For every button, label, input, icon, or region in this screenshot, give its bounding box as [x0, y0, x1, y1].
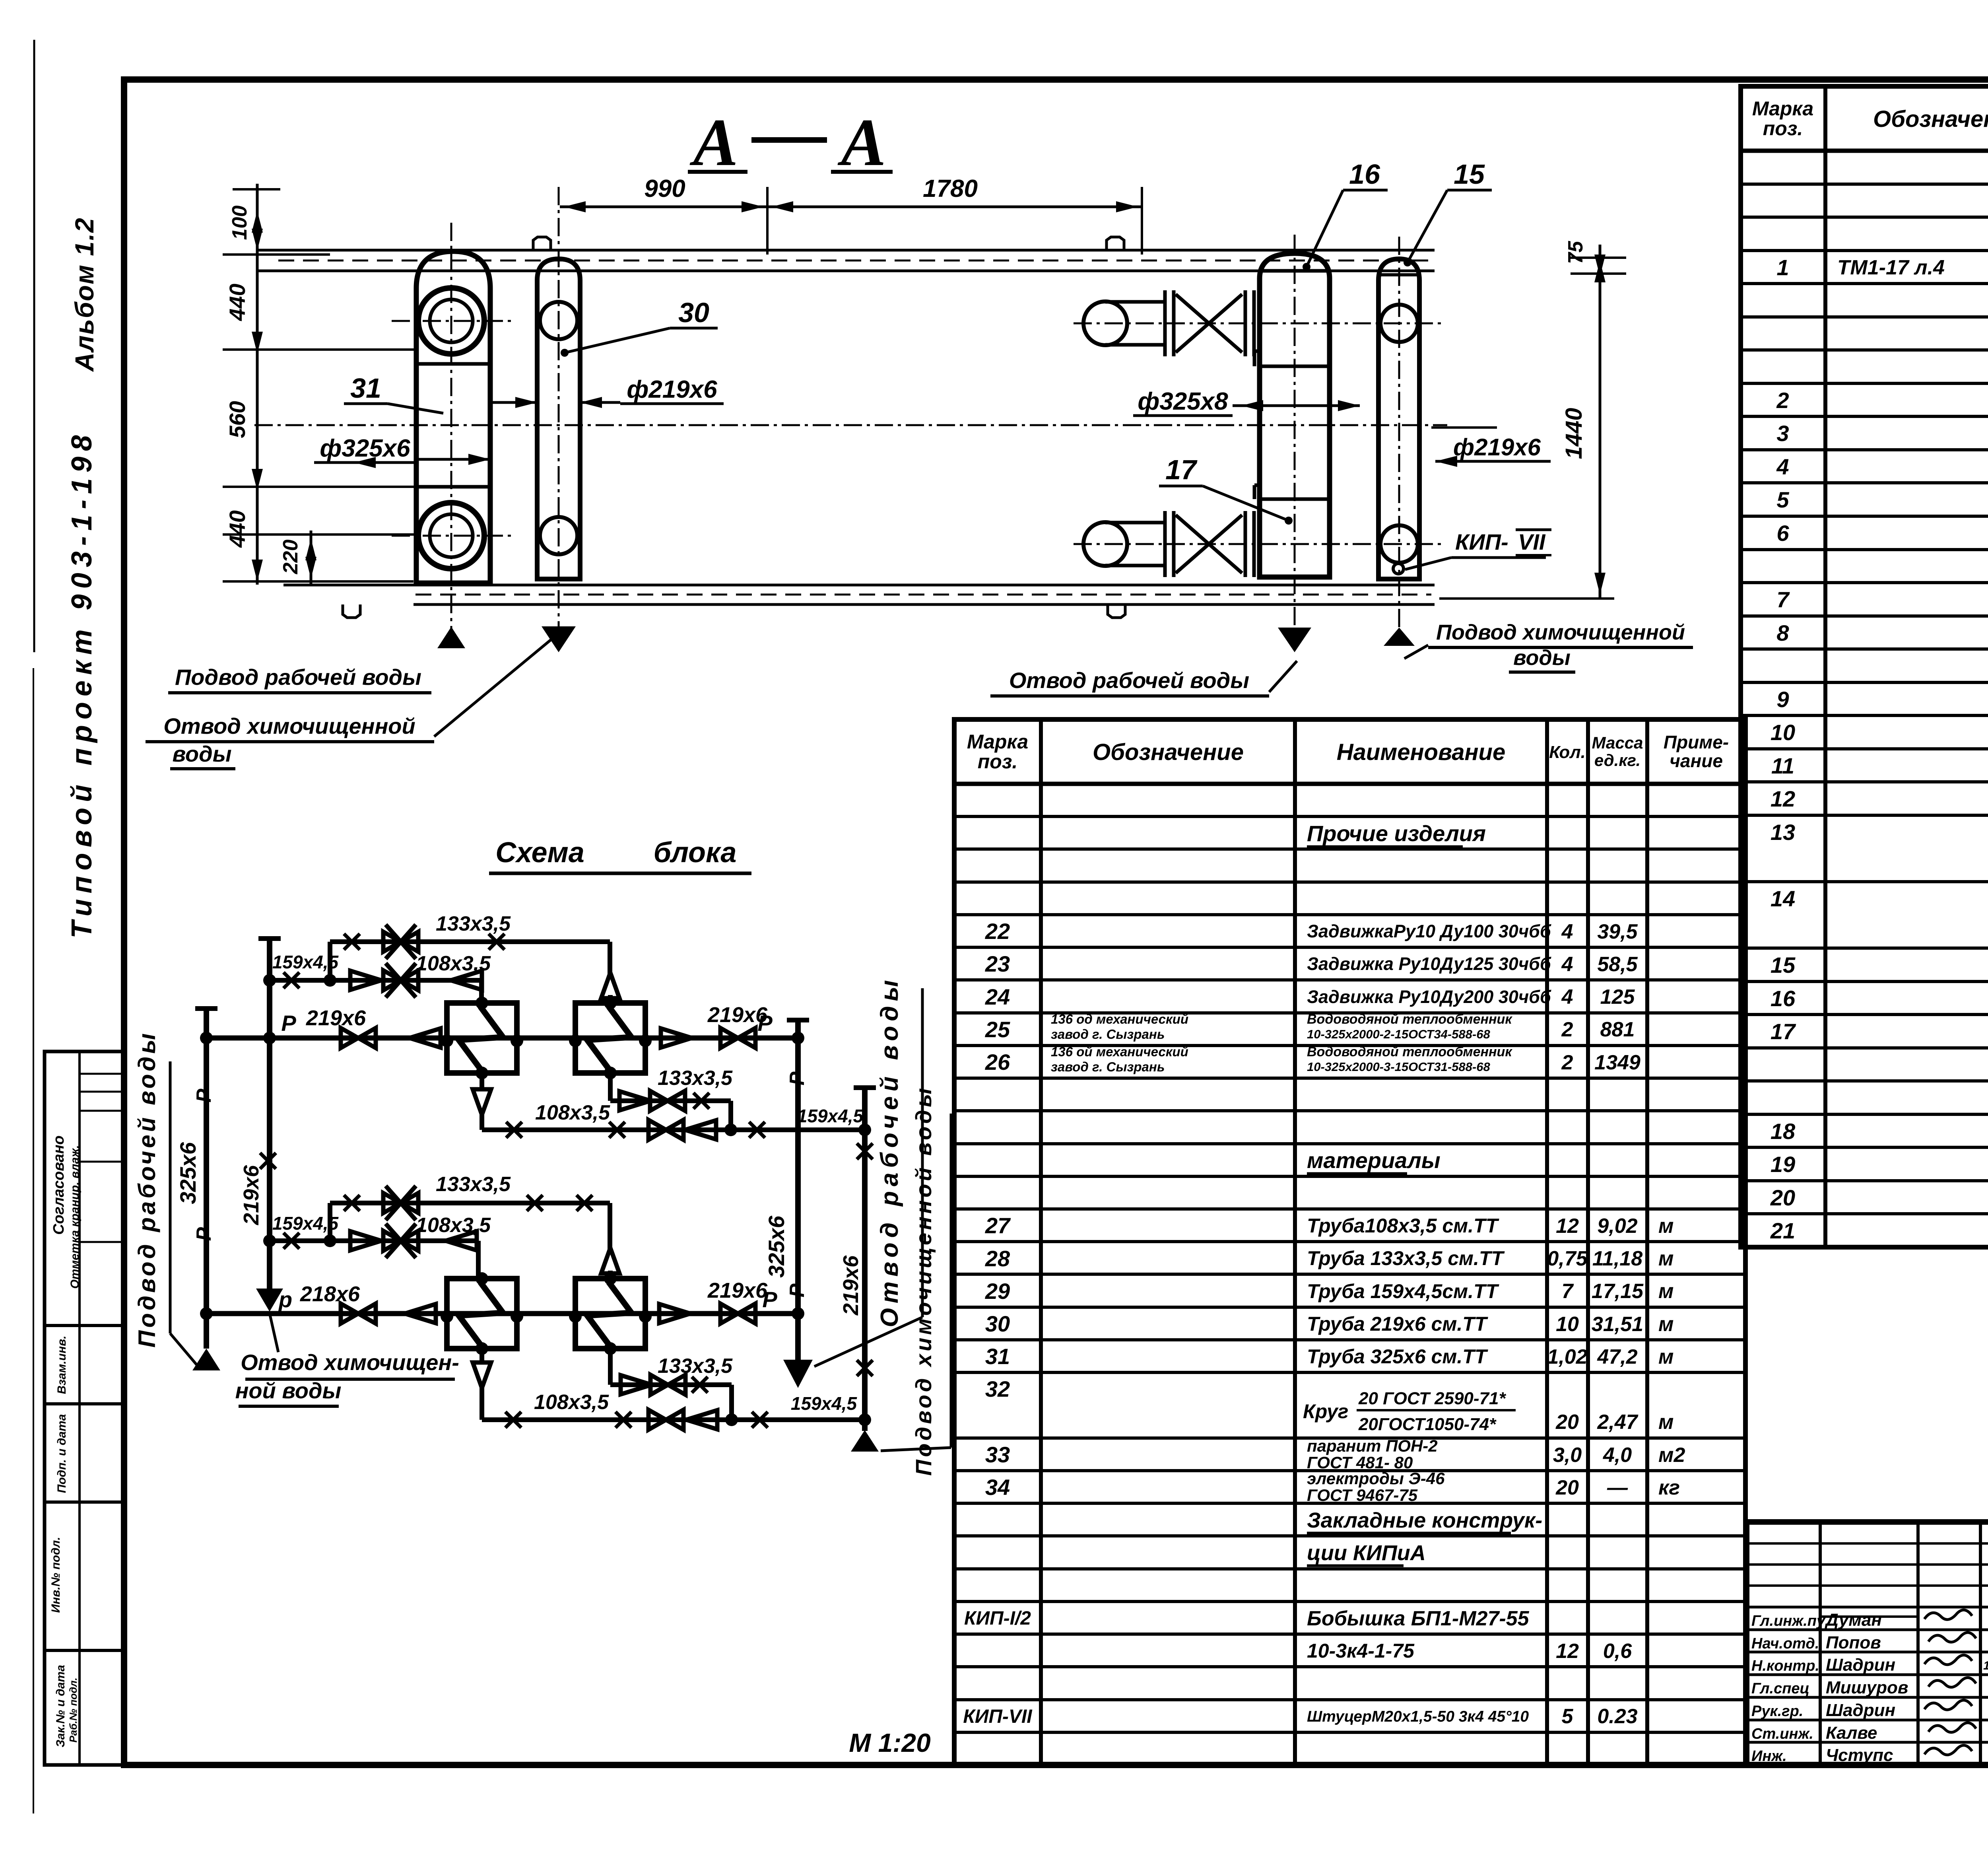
svg-text:108х3,5: 108х3,5: [416, 1214, 491, 1237]
svg-text:39,5: 39,5: [1597, 920, 1638, 943]
svg-text:133х3,5: 133х3,5: [436, 912, 511, 935]
svg-text:Труба 325х6 см.ТТ: Труба 325х6 см.ТТ: [1307, 1345, 1489, 1368]
svg-text:29: 29: [985, 1279, 1010, 1304]
svg-text:218х6: 218х6: [300, 1282, 360, 1306]
svg-text:1780: 1780: [923, 175, 978, 202]
label 325x6 supply: [175, 1142, 200, 1204]
label P upper main left: [281, 1011, 296, 1036]
svg-text:Р: Р: [192, 1227, 215, 1241]
svg-text:Отвод химочищен-: Отвод химочищен-: [241, 1350, 459, 1375]
svg-text:20 ГОСТ 2590-71*: 20 ГОСТ 2590-71*: [1358, 1389, 1506, 1408]
svg-text:Водоводяной теплообменник: Водоводяной теплообменник: [1307, 1012, 1512, 1027]
label P riser return low: [786, 1283, 809, 1297]
valve rowAu: [650, 1091, 685, 1111]
right table grid: [1741, 86, 1988, 1247]
svg-text:10: 10: [1771, 720, 1795, 745]
left margin stamp boxes: [45, 1051, 124, 1765]
svg-text:Мишуров: Мишуров: [1826, 1678, 1908, 1697]
note podvod rab vody rotated: [134, 1030, 199, 1367]
stamp text Vzam inv: [55, 1335, 68, 1394]
svg-text:325х6: 325х6: [764, 1215, 789, 1278]
svg-text:м: м: [1658, 1345, 1673, 1368]
svg-text:ф219х6: ф219х6: [627, 376, 717, 403]
svg-text:Масса: Масса: [1592, 733, 1643, 752]
xmark riser159 b: [857, 1360, 873, 1376]
xmark branch108l: [283, 1233, 299, 1249]
label 159x45 rowBl: [791, 1393, 858, 1414]
svg-text:4,0: 4,0: [1603, 1444, 1632, 1467]
svg-text:Труба 133х3,5 см.ТТ: Труба 133х3,5 см.ТТ: [1307, 1247, 1505, 1269]
channel bracket top 2: [1107, 237, 1124, 250]
label 31: [344, 373, 443, 413]
xmark rowBl b: [615, 1412, 631, 1428]
right table header: [1752, 97, 1988, 140]
svg-text:завод г. Сызрань: завод г. Сызрань: [1051, 1027, 1165, 1042]
note otvod rabochey vody: [990, 661, 1297, 696]
svg-text:31: 31: [985, 1344, 1010, 1369]
svg-text:3: 3: [1776, 421, 1789, 446]
svg-text:ЗадвижкаРу10 Ду100 30чбб: ЗадвижкаРу10 Ду100 30чбб: [1307, 921, 1551, 941]
wire T1 bottom drop: [480, 1073, 484, 1090]
svg-text:ГОСТ 9467-75: ГОСТ 9467-75: [1307, 1486, 1418, 1504]
arrow podvod himochishchennoy: [1384, 628, 1415, 646]
svg-text:ТМ1-17 л.4: ТМ1-17 л.4: [1837, 256, 1945, 279]
svg-text:А: А: [837, 105, 886, 180]
xmark rowBu b: [609, 1122, 625, 1138]
svg-text:Альбом 1.2: Альбом 1.2: [70, 217, 99, 372]
svg-text:Шадрин: Шадрин: [1826, 1701, 1895, 1720]
scan page edge artifact: [33, 40, 34, 1813]
channel bracket bottom 2: [1108, 604, 1125, 618]
svg-text:Р: Р: [281, 1011, 296, 1036]
label 219x6 riser: [239, 1165, 263, 1225]
svg-text:Гл.спец: Гл.спец: [1751, 1680, 1809, 1697]
svg-text:30: 30: [678, 297, 709, 328]
svg-text:10-3к4-1-75: 10-3к4-1-75: [1307, 1640, 1415, 1662]
label P riser return: [786, 1071, 809, 1085]
svg-text:материалы: материалы: [1307, 1148, 1441, 1173]
channel bracket top 1: [533, 237, 551, 250]
svg-text:воды: воды: [172, 741, 231, 766]
svg-text:10: 10: [1556, 1313, 1579, 1336]
svg-text:Отвод рабочей воды: Отвод рабочей воды: [1009, 668, 1249, 693]
label P riser325 upper: [192, 1088, 215, 1102]
svg-text:15.05.86: 15.05.86: [1983, 1659, 1988, 1672]
middle table content: [963, 821, 1685, 1728]
svg-text:220: 220: [279, 540, 302, 575]
svg-text:219х6: 219х6: [306, 1006, 366, 1030]
riser 159 right: [854, 1088, 876, 1431]
svg-text:20ГОСТ1050-74*: 20ГОСТ1050-74*: [1358, 1415, 1497, 1434]
svg-text:Р: Р: [757, 1011, 773, 1036]
svg-text:12: 12: [1771, 786, 1795, 811]
label 108x35 upper: [416, 952, 491, 975]
svg-text:ной воды: ной воды: [235, 1378, 342, 1403]
xmark rowAl: [692, 1377, 708, 1393]
svg-text:Отвод химочищенной: Отвод химочищенной: [163, 713, 415, 739]
svg-text:ШтуцерМ20х1,5-50 3к4 45°10: ШтуцерМ20х1,5-50 3к4 45°10: [1307, 1708, 1529, 1725]
note otvod himochishchen rotated: [235, 1313, 459, 1406]
svg-text:2,47: 2,47: [1597, 1411, 1638, 1434]
svg-text:Раб.№ подл.: Раб.№ подл.: [67, 1677, 79, 1742]
svg-text:2: 2: [1561, 1018, 1573, 1041]
riser 325 return: [787, 1020, 809, 1360]
dimension chain 100-440-560-440: [223, 184, 416, 585]
valve branch133l: [383, 1186, 418, 1220]
note podvod himochishchennoy vody: [1404, 620, 1693, 672]
svg-text:11,18: 11,18: [1592, 1247, 1642, 1270]
wire rowB lower: [482, 1388, 865, 1426]
svg-text:Бобышка БП1-М27-55: Бобышка БП1-М27-55: [1307, 1607, 1530, 1630]
svg-text:24: 24: [985, 984, 1010, 1009]
xmark riser219 b: [260, 1153, 276, 1169]
svg-text:0,75: 0,75: [1547, 1247, 1588, 1270]
label f325x6: [314, 435, 490, 468]
svg-text:18: 18: [1771, 1119, 1796, 1144]
svg-text:Взам.инв.: Взам.инв.: [55, 1335, 68, 1394]
svg-text:Нач.отд.: Нач.отд.: [1751, 1635, 1819, 1652]
svg-text:Труба 159х4,5см.ТТ: Труба 159х4,5см.ТТ: [1307, 1280, 1500, 1302]
svg-text:133х3,5: 133х3,5: [436, 1173, 511, 1196]
svg-text:Типовой проект 903-1-198: Типовой проект 903-1-198: [66, 430, 98, 939]
label 16: [1303, 159, 1388, 271]
svg-text:4: 4: [1776, 454, 1789, 479]
label 17: [1159, 454, 1293, 525]
svg-text:15: 15: [1454, 159, 1485, 190]
margin label Albom 1.2: [70, 217, 99, 372]
svg-text:Приме-: Приме-: [1664, 732, 1729, 752]
dimension 990-1780: [560, 175, 1142, 255]
valve branch108u: [383, 963, 418, 997]
label 219x6 riser159: [839, 1255, 863, 1316]
arrow inlet 325: [192, 1349, 220, 1370]
label 159x4 upper: [272, 952, 339, 972]
svg-text:133х3,5: 133х3,5: [658, 1355, 733, 1378]
svg-text:м: м: [1658, 1215, 1673, 1238]
svg-text:11: 11: [1771, 753, 1794, 778]
label 108x35 lower: [416, 1214, 491, 1237]
svg-text:м2: м2: [1658, 1444, 1685, 1467]
label 218x6 lower main: [300, 1282, 360, 1306]
svg-text:КИП-VII: КИП-VII: [963, 1706, 1033, 1727]
vent T4 top: [601, 1248, 619, 1279]
dimension 220: [279, 531, 316, 585]
wire branch 133 upper: [330, 942, 610, 980]
svg-text:136 од механический: 136 од механический: [1051, 1012, 1188, 1026]
label 30: [561, 297, 718, 357]
xmark branch133u a: [344, 934, 360, 950]
reducer upper main left: [410, 1028, 441, 1048]
pipe 325 pos31 top circle: [418, 288, 484, 354]
svg-text:16: 16: [1349, 159, 1380, 190]
vent T2 top: [601, 973, 619, 1003]
centerline pipe15: [1074, 237, 1443, 636]
reducer rowBl: [686, 1410, 717, 1429]
valve rowBu: [648, 1120, 683, 1140]
svg-text:7: 7: [1776, 587, 1790, 612]
svg-text:1,02: 1,02: [1547, 1345, 1587, 1368]
label 219x6 upper main right: [707, 1003, 768, 1027]
valve stub upper pos17: [1083, 290, 1254, 356]
valve lower main right: [720, 1304, 755, 1324]
svg-text:Кол.: Кол.: [1549, 742, 1586, 762]
svg-text:133х3,5: 133х3,5: [658, 1067, 733, 1090]
valve lower main left: [341, 1304, 376, 1324]
channel bracket bottom 1: [343, 604, 360, 618]
xmark rowBu a: [506, 1122, 522, 1138]
reducer lower main right: [659, 1304, 690, 1323]
svg-text:ции КИПиА: ции КИПиА: [1307, 1541, 1426, 1565]
schematic title Shema bloka: [489, 837, 751, 873]
stamp text bottom cell: [54, 1665, 79, 1747]
wire rowA lower: [610, 1349, 732, 1420]
svg-text:поз.: поз.: [978, 750, 1018, 773]
svg-text:Р: Р: [762, 1287, 777, 1312]
svg-text:881: 881: [1600, 1018, 1635, 1041]
label 133x35 rowAl: [658, 1355, 733, 1378]
svg-text:159х4,5: 159х4,5: [797, 1106, 864, 1126]
xmark rowAu: [693, 1093, 709, 1109]
svg-text:25: 25: [985, 1017, 1010, 1042]
reducer branch108u in: [350, 971, 381, 990]
label P lower main right: [762, 1287, 777, 1312]
reducer lower main left: [405, 1304, 436, 1323]
note otvod himochishchennoy vody: [146, 638, 553, 769]
wire rowA upper: [610, 1073, 731, 1130]
svg-text:1: 1: [1776, 255, 1789, 280]
svg-text:VII: VII: [1518, 529, 1546, 554]
reducer branch108u out: [451, 971, 482, 990]
svg-text:Подвод химочищенной воды: Подвод химочищенной воды: [911, 1085, 936, 1476]
pipe 325 pos16: [1254, 253, 1330, 577]
svg-text:Прочие изделия: Прочие изделия: [1307, 821, 1486, 846]
svg-text:Попов: Попов: [1826, 1633, 1881, 1652]
svg-text:Марка: Марка: [967, 731, 1028, 753]
valve rowBl: [648, 1410, 683, 1430]
reducer branch108l in: [350, 1231, 381, 1250]
svg-text:ед.кг.: ед.кг.: [1594, 751, 1640, 770]
svg-text:990: 990: [644, 175, 685, 202]
svg-text:27: 27: [985, 1213, 1011, 1238]
svg-text:Подвод рабочей воды: Подвод рабочей воды: [134, 1030, 160, 1347]
svg-text:Задвижка Ру10Ду125 30чбб: Задвижка Ру10Ду125 30чбб: [1307, 954, 1551, 974]
pipe 325 pos31 bottom circle: [418, 503, 484, 569]
svg-text:125: 125: [1600, 985, 1635, 1009]
svg-text:2: 2: [1561, 1051, 1573, 1074]
svg-text:Труба 219х6 см.ТТ: Труба 219х6 см.ТТ: [1307, 1313, 1489, 1335]
svg-text:440: 440: [225, 284, 250, 321]
svg-text:Зак.№ и дата: Зак.№ и дата: [54, 1665, 67, 1747]
label 159x45 rowBu right: [797, 1106, 864, 1126]
label 325x6 return: [764, 1215, 789, 1278]
svg-text:108х3,5: 108х3,5: [535, 1101, 610, 1124]
svg-text:А: А: [689, 105, 738, 180]
svg-text:5: 5: [1562, 1705, 1574, 1728]
label 108x35 rowBl: [534, 1391, 609, 1414]
svg-text:560: 560: [225, 401, 250, 438]
xmark riser159 a: [857, 1143, 873, 1159]
label P lower main left: [278, 1287, 292, 1312]
svg-text:30: 30: [985, 1311, 1010, 1336]
xmark branch108u: [283, 972, 299, 988]
note podvod rabochey vody: [168, 665, 431, 693]
svg-text:Задвижка Ру10Ду200 30чбб: Задвижка Ру10Ду200 30чбб: [1307, 987, 1551, 1007]
svg-text:1440: 1440: [1561, 408, 1587, 459]
svg-text:р: р: [278, 1287, 292, 1312]
svg-text:136 ой механический: 136 ой механический: [1051, 1044, 1188, 1059]
svg-text:219х6: 219х6: [707, 1279, 768, 1302]
svg-text:паранит ПОН-2: паранит ПОН-2: [1307, 1436, 1438, 1455]
svg-text:20: 20: [1555, 1476, 1579, 1499]
svg-text:10-325х2000-2-15ОСТ34-588-68: 10-325х2000-2-15ОСТ34-588-68: [1307, 1027, 1490, 1041]
support band top edge: [256, 250, 1435, 271]
svg-text:20: 20: [1770, 1185, 1795, 1210]
label f325x8: [1133, 388, 1360, 416]
svg-text:Подп. и дата: Подп. и дата: [55, 1414, 68, 1493]
stamp text Podp i data: [55, 1414, 68, 1493]
support band bottom edge: [283, 585, 1435, 604]
svg-text:Труба108х3,5 см.ТТ: Труба108х3,5 см.ТТ: [1307, 1215, 1500, 1237]
centerline pipe31: [392, 223, 515, 633]
svg-text:электроды Э-46: электроды Э-46: [1307, 1469, 1445, 1488]
svg-text:17: 17: [1165, 454, 1198, 485]
svg-text:Согласовано: Согласовано: [50, 1135, 67, 1235]
svg-text:Инж.: Инж.: [1751, 1748, 1787, 1765]
centerline pipe16: [1294, 235, 1296, 632]
svg-text:34: 34: [985, 1475, 1010, 1500]
svg-text:Думан: Думан: [1824, 1610, 1882, 1630]
stamp text Soglasovano: [50, 1135, 67, 1235]
svg-text:17,15: 17,15: [1592, 1280, 1644, 1303]
wire T3 bottom drop: [480, 1349, 484, 1363]
svg-text:159х4,5: 159х4,5: [791, 1393, 858, 1414]
valve upper main right: [720, 1028, 755, 1048]
svg-text:3,0: 3,0: [1553, 1444, 1582, 1467]
heat exchanger T1: [441, 997, 523, 1079]
svg-text:Круг: Круг: [1303, 1400, 1348, 1423]
wire upper main: [206, 1036, 798, 1041]
note otvod rab vody rotated: [814, 976, 922, 1366]
svg-text:Обозначение: Обозначение: [1873, 106, 1988, 132]
middle table header: [967, 731, 1729, 773]
svg-text:0,6: 0,6: [1603, 1640, 1632, 1663]
pipe 219 pos30 outline: [537, 259, 580, 579]
pipe 219 pos30 circles: [540, 302, 577, 554]
vent T1 bottom: [473, 1089, 491, 1115]
stamp text Inv N podl: [49, 1537, 62, 1613]
section title A-A: [688, 105, 893, 180]
svg-text:32: 32: [985, 1376, 1010, 1401]
svg-text:—: —: [1607, 1476, 1628, 1499]
svg-text:31,51: 31,51: [1592, 1313, 1643, 1336]
arrow otvod rabochey: [1278, 628, 1311, 652]
svg-text:47,2: 47,2: [1597, 1345, 1637, 1368]
svg-text:Р: Р: [786, 1071, 809, 1085]
pipe 219 pos15: [1378, 259, 1419, 579]
pipe 219 pos15 circles: [1380, 305, 1418, 574]
pipe 325 pos31 outline: [416, 251, 490, 583]
label 133x35 rowAu: [658, 1067, 733, 1090]
svg-text:КИП-I/2: КИП-I/2: [964, 1608, 1031, 1629]
label 133x35 upper: [436, 912, 511, 935]
svg-text:Отметка кранир. влаж.: Отметка кранир. влаж.: [68, 1145, 82, 1289]
svg-text:Наименование: Наименование: [1337, 739, 1505, 765]
svg-text:Схема: Схема: [495, 837, 584, 869]
svg-text:ф325х6: ф325х6: [320, 435, 410, 462]
svg-text:33: 33: [985, 1442, 1010, 1467]
svg-text:58,5: 58,5: [1597, 953, 1638, 976]
xmark branch133l a: [344, 1195, 360, 1211]
svg-text:7: 7: [1562, 1280, 1574, 1303]
svg-text:4: 4: [1561, 920, 1573, 943]
valve branch133u: [383, 925, 418, 959]
reducer rowAu: [619, 1091, 650, 1110]
label f219x6 right: [1431, 428, 1551, 467]
label 133x35 lower: [436, 1173, 511, 1196]
xmark rowBl a: [505, 1412, 521, 1428]
svg-text:завод г. Сызрань: завод г. Сызрань: [1051, 1059, 1165, 1074]
svg-text:23: 23: [985, 951, 1010, 976]
valve stub lower pos17: [1083, 511, 1254, 577]
dim extension top: [233, 188, 280, 190]
svg-text:Чступс: Чступс: [1826, 1745, 1893, 1765]
svg-text:Марка: Марка: [1752, 97, 1813, 120]
arrow down riser219: [256, 1289, 283, 1312]
wire branch 108 upper: [270, 974, 481, 1003]
svg-text:Рук.гр.: Рук.гр.: [1751, 1703, 1803, 1720]
svg-text:16: 16: [1771, 986, 1796, 1011]
arrow otvod himochishchennoy: [542, 626, 576, 652]
xmark branch133l c: [577, 1195, 592, 1211]
svg-text:кг: кг: [1658, 1476, 1680, 1499]
arrow outlet 325 return: [783, 1360, 813, 1388]
svg-text:воды: воды: [1513, 646, 1571, 670]
label 219x6 lower main right: [707, 1279, 768, 1302]
xmark branch133l b: [527, 1195, 543, 1211]
svg-text:219х6: 219х6: [839, 1255, 863, 1316]
arrow podvod rabochey: [437, 627, 465, 648]
svg-text:4: 4: [1561, 953, 1573, 976]
svg-text:22: 22: [985, 919, 1010, 944]
svg-text:2: 2: [1776, 388, 1789, 413]
svg-text:Отвод рабочей воды: Отвод рабочей воды: [876, 976, 903, 1327]
svg-text:КИП-: КИП-: [1455, 529, 1508, 554]
svg-text:31: 31: [350, 373, 381, 404]
svg-text:Инв.№ подл.: Инв.№ подл.: [49, 1537, 62, 1613]
svg-text:13: 13: [1771, 820, 1795, 845]
svg-text:блока: блока: [654, 837, 737, 869]
svg-text:Гл.инж.пу: Гл.инж.пу: [1751, 1613, 1826, 1629]
label P upper main right: [757, 1011, 773, 1036]
svg-text:12: 12: [1556, 1640, 1579, 1663]
svg-text:21: 21: [1770, 1218, 1795, 1243]
svg-text:чание: чание: [1670, 750, 1723, 771]
label f219x6: [489, 376, 724, 408]
svg-text:Р: Р: [192, 1088, 215, 1102]
margin label Tipovoy proekt 903-1-198: [66, 430, 98, 939]
svg-text:108х3,5: 108х3,5: [534, 1391, 609, 1414]
svg-text:м: м: [1658, 1280, 1673, 1303]
heat exchanger T4: [569, 1272, 652, 1355]
svg-text:Шадрин: Шадрин: [1826, 1655, 1895, 1675]
svg-text:28: 28: [985, 1246, 1010, 1271]
svg-text:м: м: [1658, 1411, 1673, 1434]
heat exchanger T3: [441, 1272, 523, 1355]
svg-text:Подвод химочищенной: Подвод химочищенной: [1436, 620, 1685, 644]
svg-text:5: 5: [1776, 487, 1789, 512]
svg-text:100: 100: [228, 206, 251, 240]
valve upper main left: [341, 1028, 376, 1048]
